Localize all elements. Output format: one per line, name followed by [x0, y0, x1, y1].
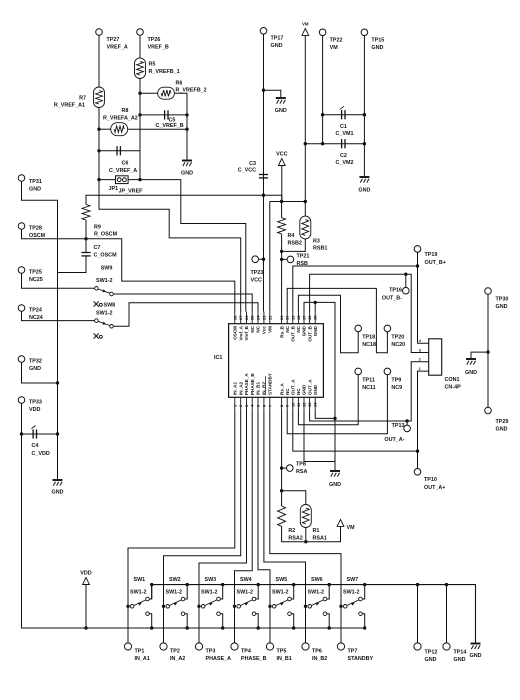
svg-text:25: 25	[250, 315, 255, 320]
wire C1	[323, 114, 365, 116]
svg-text:TP10: TP10	[424, 477, 437, 483]
svg-text:SW8: SW8	[104, 303, 116, 309]
svg-text:NC: NC	[256, 325, 261, 332]
svg-text:TP6: TP6	[312, 649, 322, 655]
test point TP21	[287, 256, 294, 263]
svg-text:NC: NC	[296, 388, 301, 395]
wire SW4 lower throw	[256, 614, 259, 628]
wire SW7 upper throw	[362, 585, 365, 599]
switch SW3	[201, 605, 205, 609]
svg-text:OSCM: OSCM	[233, 326, 238, 340]
svg-text:TP22: TP22	[330, 38, 343, 44]
wire R7 to node	[99, 108, 241, 312]
svg-text:R4: R4	[288, 233, 295, 239]
wire TP30 gnd branch	[471, 352, 488, 358]
junction R5/R6	[138, 92, 141, 95]
svg-text:R8: R8	[122, 108, 129, 114]
wire C6	[99, 150, 140, 152]
wire pin10 OUT_A+	[293, 411, 418, 452]
ground mid-right	[330, 471, 340, 477]
test point TP26	[137, 29, 144, 36]
svg-text:C_OSCM: C_OSCM	[94, 253, 118, 259]
wire TP25 to SW9	[22, 273, 95, 288]
svg-text:TP33: TP33	[29, 400, 42, 406]
junction rail C4	[56, 432, 59, 435]
svg-text:TP30: TP30	[496, 297, 509, 303]
switch SW4 lever arrow	[245, 603, 249, 606]
svg-text:PHASE_B: PHASE_B	[241, 656, 267, 662]
junction SW7 vdd bus	[363, 626, 366, 629]
test point TP31	[18, 175, 25, 182]
wire pin11 NC11	[298, 375, 358, 425]
wire pin15 gnd	[314, 302, 316, 311]
junction SW5 common	[268, 605, 271, 608]
junction RSB top	[280, 200, 283, 203]
test point TP3	[195, 643, 202, 650]
test point TP27	[96, 29, 103, 36]
svg-text:C_VM1: C_VM1	[336, 131, 354, 137]
svg-text:GND: GND	[465, 370, 477, 376]
switch SW4	[237, 605, 241, 609]
junction SW3 gnd bus	[221, 583, 224, 586]
test point TP20	[384, 325, 391, 332]
junction SW3 vdd bus	[221, 626, 224, 629]
test point TP7	[337, 643, 344, 650]
svg-text:SW4: SW4	[240, 577, 252, 583]
junction SW7 gnd bus	[363, 583, 366, 586]
ground bottom-right	[471, 644, 481, 650]
resistor R6	[158, 87, 175, 99]
svg-text:OUT_A: OUT_A	[291, 379, 296, 395]
test point TP25	[18, 267, 25, 274]
junction SW6 gnd bus	[328, 583, 331, 586]
junction TP12 bus	[416, 583, 419, 586]
test point TP9	[384, 368, 391, 375]
wire TP26 to R5	[139, 35, 141, 58]
junction SW1 common	[126, 605, 129, 608]
svg-text:R_VREF_A1: R_VREF_A1	[54, 103, 85, 109]
switch SW8	[95, 319, 99, 323]
test point TP24	[18, 305, 25, 312]
switch SW5	[272, 605, 276, 609]
wire pin9 NC9	[287, 375, 387, 434]
junction TP15/C2	[363, 142, 366, 145]
svg-text:16: 16	[307, 315, 312, 320]
junction SW7 common	[339, 605, 342, 608]
junction R7/JP1	[97, 178, 100, 181]
svg-text:SW1-2: SW1-2	[343, 590, 359, 596]
switch SW2	[166, 605, 170, 609]
svg-text:C7: C7	[94, 245, 101, 251]
switch SW9 nc mark	[94, 301, 99, 306]
wire pin22 up	[269, 202, 271, 312]
switch SW1	[130, 605, 134, 609]
junction VDD bus	[84, 626, 87, 629]
svg-text:GND: GND	[454, 657, 466, 663]
junction SW3 common	[197, 605, 200, 608]
svg-text:GND: GND	[425, 657, 437, 663]
svg-text:IN_A2: IN_A2	[170, 656, 185, 662]
wire SW1 upper throw	[149, 585, 152, 599]
svg-text:GND: GND	[52, 490, 64, 496]
junction C3/VCC	[262, 194, 265, 197]
test point TP32	[18, 356, 25, 363]
ground top-left	[182, 161, 192, 167]
svg-text:23: 23	[261, 315, 266, 320]
junction C5 right	[185, 113, 188, 116]
switch SW6	[308, 605, 312, 609]
svg-text:VM: VM	[302, 21, 309, 26]
svg-text:TP12: TP12	[425, 650, 438, 656]
svg-text:C_VREF_A: C_VREF_A	[109, 168, 137, 174]
wire pin19 OUT_B+	[293, 266, 418, 312]
svg-text:RSA1: RSA1	[313, 536, 327, 542]
wire pin2 to SW2	[164, 411, 241, 644]
wire VCC stem	[281, 166, 283, 202]
junction SW5 gnd bus	[292, 583, 295, 586]
switch SW8 nc mark	[94, 333, 99, 338]
resistor R2	[278, 506, 286, 526]
svg-text:NC: NC	[296, 325, 301, 332]
junction TP17 gnd branch	[262, 89, 265, 92]
svg-text:18: 18	[296, 315, 301, 320]
wire pin8 RsA	[281, 411, 283, 507]
ground right	[466, 359, 476, 365]
junction R9/C7	[84, 237, 87, 240]
resistor R9	[82, 205, 90, 221]
wire R5 to JP1 line	[139, 79, 141, 180]
svg-text:SW5: SW5	[276, 577, 288, 583]
wire SW6 lower throw	[327, 614, 330, 628]
svg-text:IC1: IC1	[214, 355, 222, 361]
wire R1 bottom	[305, 528, 307, 542]
IC U1 pin names	[233, 325, 318, 395]
svg-text:R6: R6	[176, 81, 183, 87]
svg-text:SW1-2: SW1-2	[201, 590, 217, 596]
svg-text:R2: R2	[288, 528, 295, 534]
svg-text:C4: C4	[32, 443, 39, 449]
wire C7 to rail	[58, 256, 87, 273]
wire vcc line	[86, 195, 282, 204]
svg-text:PHASE_B: PHASE_B	[250, 373, 255, 395]
svg-text:TP27: TP27	[107, 37, 120, 43]
svg-text:NC: NC	[250, 325, 255, 332]
wire TP13 stem	[406, 421, 408, 425]
test point TP5	[266, 643, 273, 650]
svg-text:OUT_B: OUT_B	[307, 325, 312, 341]
svg-text:TP21: TP21	[297, 254, 310, 260]
svg-text:VM: VM	[268, 326, 273, 333]
svg-text:Vcc: Vcc	[262, 326, 267, 335]
svg-text:VCC: VCC	[276, 152, 287, 158]
svg-text:TP24: TP24	[29, 308, 42, 314]
svg-text:OUT_B: OUT_B	[291, 325, 296, 341]
junction TP14 bus	[445, 583, 448, 586]
svg-text:27: 27	[238, 315, 243, 320]
junction SW1 gnd bus	[150, 583, 153, 586]
test point TP8	[287, 465, 294, 472]
junction SW4 common	[233, 605, 236, 608]
switch SW7 lever arrow	[351, 603, 355, 606]
test point TP29	[485, 407, 492, 414]
svg-text:GND: GND	[181, 171, 193, 177]
junction SW4 gnd bus	[257, 583, 260, 586]
wire pin18 NC18	[298, 295, 358, 353]
svg-text:SW9: SW9	[101, 266, 113, 272]
svg-text:OUT_A+: OUT_A+	[424, 485, 445, 491]
junction R1/R2	[304, 540, 307, 543]
svg-text:C_VCC: C_VCC	[238, 168, 256, 174]
switch SW8 nc terminal	[99, 335, 102, 338]
svg-text:TP13: TP13	[392, 423, 405, 429]
junction R7/R8	[97, 128, 100, 131]
resistor R5	[135, 58, 146, 79]
svg-text:IN_B2: IN_B2	[262, 382, 267, 395]
wire SW5 upper throw	[291, 585, 294, 599]
wire C2	[305, 143, 364, 145]
svg-text:TP2: TP2	[170, 649, 180, 655]
svg-text:SW1-2: SW1-2	[308, 590, 324, 596]
svg-text:C_VDD: C_VDD	[32, 451, 50, 457]
svg-text:VDD: VDD	[29, 407, 40, 413]
wire TP23 stub	[259, 258, 264, 260]
IC U1 STANDBY overline	[264, 376, 266, 395]
svg-text:SW1-2: SW1-2	[96, 278, 112, 284]
junction TP30 gnd	[486, 350, 489, 353]
capacitor C1	[340, 106, 345, 119]
svg-text:OUT_B-: OUT_B-	[382, 296, 402, 302]
power VM bottom	[337, 519, 344, 526]
svg-text:R_OSCM: R_OSCM	[94, 232, 118, 238]
svg-text:TP17: TP17	[271, 36, 284, 42]
svg-text:OUT_B+: OUT_B+	[425, 260, 446, 266]
svg-text:TP7: TP7	[348, 649, 358, 655]
svg-text:17: 17	[302, 315, 307, 320]
test point TP28	[18, 223, 25, 230]
test point TP23	[252, 256, 259, 263]
IC U1 pin numbers	[232, 315, 317, 407]
wire R8 left	[99, 128, 111, 130]
svg-text:RSA: RSA	[296, 469, 307, 475]
svg-text:IN_B1: IN_B1	[277, 656, 292, 662]
wire TP24 to SW8	[22, 311, 95, 320]
wire TP21 stub	[282, 258, 288, 260]
ground mid-top	[276, 98, 286, 104]
svg-text:R9: R9	[94, 225, 101, 231]
svg-text:VREF_A: VREF_A	[107, 45, 128, 51]
wire pin7 to SW7	[270, 411, 341, 644]
junction SW5 vdd bus	[292, 626, 295, 629]
switch SW3 lever arrow	[209, 603, 213, 606]
svg-text:NC20: NC20	[391, 342, 405, 348]
junction R1 top	[280, 489, 283, 492]
svg-text:VDD: VDD	[80, 571, 91, 577]
wire R6 right	[174, 93, 187, 160]
wire TP31 to rail	[22, 181, 58, 479]
wire SW6 upper throw	[327, 585, 330, 599]
svg-text:19: 19	[290, 315, 295, 320]
resistor R4	[278, 218, 286, 234]
wire rsb node line	[270, 201, 306, 203]
ground TP15	[359, 177, 369, 183]
svg-text:12: 12	[302, 402, 307, 407]
wire SW3 lower throw	[220, 614, 223, 628]
svg-text:TP3: TP3	[206, 649, 216, 655]
svg-text:NC18: NC18	[362, 342, 376, 348]
wire pin1 to SW1	[128, 411, 235, 644]
svg-text:TP32: TP32	[29, 359, 42, 365]
junction TP19	[416, 264, 419, 267]
wire SW1 lower throw	[149, 614, 152, 628]
svg-text:26: 26	[244, 315, 249, 320]
junction R7/C6	[97, 149, 100, 152]
test point TP13	[404, 425, 411, 432]
svg-text:28: 28	[232, 315, 237, 320]
test point TP11	[355, 368, 362, 375]
svg-text:GND: GND	[29, 187, 41, 193]
svg-text:TP16: TP16	[389, 288, 402, 294]
switch SW1 lever arrow	[138, 603, 142, 606]
svg-text:C_VREF_B: C_VREF_B	[156, 123, 184, 129]
wire C7 top	[85, 239, 87, 253]
svg-text:Vref_B: Vref_B	[244, 325, 249, 340]
junction TP22/C1	[321, 113, 324, 116]
wire C5	[140, 114, 187, 116]
wire R1 top branch	[282, 491, 306, 505]
wire TP22 down	[322, 36, 324, 144]
svg-text:SW1: SW1	[134, 577, 146, 583]
wire TP12 stem	[417, 585, 419, 643]
test point TP14	[443, 643, 450, 650]
wire SW2 upper throw	[185, 585, 188, 599]
svg-text:14: 14	[313, 402, 318, 407]
test point TP1	[124, 643, 131, 650]
svg-text:SW2: SW2	[169, 577, 181, 583]
svg-text:CON1: CON1	[445, 377, 460, 383]
junction rail TP32	[56, 381, 59, 384]
wire R9 bottom	[85, 220, 87, 239]
wire JP1 right to Vref_B pin	[128, 180, 246, 312]
svg-text:VREF_B: VREF_B	[148, 45, 169, 51]
svg-text:GND: GND	[358, 188, 370, 194]
svg-text:GND: GND	[496, 304, 508, 310]
svg-text:TP23: TP23	[251, 270, 264, 276]
svg-text:R3: R3	[313, 239, 320, 245]
wire pin5 to SW5	[258, 411, 270, 644]
wire pin20 NC20	[287, 288, 387, 352]
wire TP16 stem	[405, 274, 407, 287]
IC U1 body	[229, 324, 324, 398]
junction VREF_B/JP1	[138, 178, 141, 181]
svg-text:Vref_A: Vref_A	[238, 325, 243, 340]
svg-text:IN_A2: IN_A2	[238, 382, 243, 395]
switch SW9 nc terminal	[99, 303, 102, 306]
switch SW8 arrow	[102, 322, 106, 325]
junction TP21	[280, 258, 283, 261]
wire gnd bus	[152, 585, 476, 643]
svg-text:IN_B2: IN_B2	[312, 656, 327, 662]
junction SW6 common	[304, 605, 307, 608]
junction TP13	[405, 419, 408, 422]
wire pin16 OUT_B-	[310, 274, 429, 352]
svg-text:SW7: SW7	[347, 577, 359, 583]
wire RSA bottom	[282, 526, 341, 541]
svg-text:TP9: TP9	[391, 378, 401, 384]
svg-text:NC: NC	[285, 325, 290, 332]
svg-text:TP25: TP25	[29, 270, 42, 276]
test point TP16	[403, 287, 410, 294]
svg-text:15: 15	[313, 315, 318, 320]
svg-text:GND: GND	[275, 108, 287, 114]
wire TP27 to R7	[98, 35, 100, 87]
svg-text:SW1-2: SW1-2	[130, 590, 146, 596]
junction TP22/C2	[321, 142, 324, 145]
wire SW3 upper throw	[220, 585, 223, 599]
svg-text:IN_A1: IN_A1	[233, 382, 238, 395]
svg-text:C6: C6	[122, 161, 129, 167]
connector CON1 body	[429, 339, 442, 375]
svg-text:GND: GND	[313, 325, 318, 336]
svg-text:TP15: TP15	[371, 38, 384, 44]
junction SW6 vdd bus	[328, 626, 331, 629]
svg-text:JP1: JP1	[109, 186, 119, 192]
svg-text:TP5: TP5	[277, 649, 287, 655]
svg-text:TP29: TP29	[496, 419, 509, 425]
svg-text:GND: GND	[302, 325, 307, 336]
junction TP8	[280, 466, 283, 469]
svg-text:RSB2: RSB2	[288, 241, 302, 247]
svg-text:VM: VM	[347, 525, 356, 531]
resistor R1	[300, 505, 311, 528]
svg-text:GND: GND	[496, 427, 508, 433]
wire TP17 down	[263, 34, 265, 311]
svg-text:NC25: NC25	[29, 277, 43, 283]
junction pin15 gnd	[314, 301, 317, 304]
svg-text:NC11: NC11	[362, 385, 375, 391]
svg-text:PHASE_A: PHASE_A	[206, 656, 232, 662]
resistor R3	[300, 216, 311, 239]
junction VM/C2	[304, 142, 307, 145]
svg-text:C_VM2: C_VM2	[336, 160, 354, 166]
wire pin3 to SW3	[199, 411, 247, 644]
svg-text:GND: GND	[313, 384, 318, 395]
svg-text:GND: GND	[470, 653, 482, 659]
wire SW7 lower throw	[362, 614, 365, 628]
svg-text:GND: GND	[29, 366, 41, 372]
switch SW7	[343, 605, 347, 609]
svg-text:SW6: SW6	[311, 577, 323, 583]
junction C4 left	[20, 432, 23, 435]
junction SW2 gnd bus	[186, 583, 189, 586]
svg-text:GND: GND	[302, 384, 307, 395]
wire VM stem	[304, 35, 306, 216]
test point TP12	[414, 643, 421, 650]
svg-text:TP11: TP11	[362, 378, 375, 384]
capacitor C3	[259, 175, 268, 178]
wire SW5 lower throw	[291, 614, 294, 628]
wire R3 bottom	[282, 239, 306, 252]
wire pin17 gnd	[304, 302, 335, 470]
wire pin6 to SW6	[264, 411, 306, 644]
junction gnd col	[333, 417, 336, 420]
wire TP33 down	[22, 403, 365, 628]
svg-text:OSCM: OSCM	[29, 233, 46, 239]
svg-text:TP18: TP18	[362, 335, 375, 341]
svg-text:GND: GND	[271, 43, 283, 49]
junction SW2 vdd bus	[186, 626, 189, 629]
wire pin4 to SW4	[235, 411, 253, 644]
wire TP28 oscm	[22, 229, 235, 311]
